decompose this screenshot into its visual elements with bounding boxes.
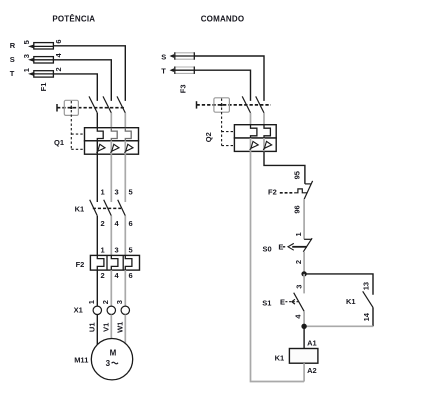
- wire pole2 F2 to X1: [110, 270, 112, 306]
- Q1 magnetic triangle pole1: [97, 144, 106, 153]
- svg-text:R: R: [10, 41, 16, 50]
- svg-text:S: S: [161, 52, 166, 61]
- svg-text:1: 1: [294, 232, 303, 236]
- svg-text:F2: F2: [268, 187, 277, 196]
- wire pole3 blade to Q1 box: [124, 113, 126, 128]
- Q2 thermal element right: [264, 125, 270, 138]
- supply arrow S comando: [170, 55, 173, 58]
- X1 terminal circle 2: [107, 306, 115, 314]
- wire node1 to S1: [303, 274, 305, 294]
- svg-text:S0: S0: [263, 244, 272, 253]
- svg-text:1: 1: [87, 300, 96, 304]
- F2 trip hook: [294, 189, 307, 193]
- Q1 mech cross dot: [70, 106, 73, 109]
- supply arrow S: [29, 58, 34, 61]
- wire R to pole3: [53, 46, 125, 101]
- wire X1-3 to motor: [124, 315, 126, 344]
- supply arrow R: [29, 45, 34, 48]
- svg-text:3: 3: [115, 246, 119, 255]
- svg-text:F2: F2: [76, 260, 85, 269]
- wire node2 to coil: [303, 326, 305, 348]
- F2 thermal element pole2: [111, 255, 118, 270]
- overload contact F2 seat: [305, 183, 311, 185]
- wire node1 to K1 branch: [304, 274, 373, 295]
- svg-text:95: 95: [293, 171, 302, 179]
- X1 terminal circle 3: [121, 306, 129, 314]
- wire T to pole1: [53, 74, 97, 101]
- svg-text:2: 2: [101, 300, 110, 304]
- wire K1 aux down: [372, 307, 374, 326]
- wire coil to bottom: [303, 363, 305, 381]
- supply arrow T: [29, 72, 34, 75]
- Q1 blade pole1: [89, 96, 97, 113]
- breaker Q2 magnetic box: [234, 138, 276, 151]
- F2 thermal element pole1: [97, 255, 104, 270]
- junction node 1: [301, 271, 306, 276]
- Q2 wire through magnetic left: [250, 138, 252, 151]
- svg-text:3: 3: [106, 359, 111, 368]
- svg-text:Q2: Q2: [204, 132, 213, 142]
- wire pole2 K1 to F2: [110, 216, 112, 256]
- svg-text:6: 6: [129, 219, 133, 228]
- X1 terminal circle 1: [93, 306, 101, 314]
- wire pole1 F2 to X1: [96, 270, 98, 306]
- wire K1 aux return: [304, 325, 373, 327]
- Q2 dashed drop link: [222, 99, 235, 146]
- svg-text:3: 3: [294, 285, 303, 289]
- svg-text:6: 6: [54, 39, 63, 43]
- svg-text:2: 2: [294, 260, 303, 264]
- overload contact F2 blade: [304, 181, 312, 199]
- svg-text:6: 6: [129, 271, 133, 280]
- wire S0 to node: [303, 252, 305, 274]
- Q2 blade pole right: [256, 96, 264, 113]
- svg-text:W1: W1: [116, 322, 125, 333]
- svg-text:U1: U1: [88, 323, 97, 333]
- Q2 blade pole left: [242, 96, 250, 113]
- Q1 thermal element pole2: [111, 128, 117, 141]
- Q1 blade pole3: [117, 96, 125, 113]
- svg-text:V1: V1: [102, 323, 111, 332]
- svg-text:Q1: Q1: [54, 138, 64, 147]
- overload F2 box: [90, 255, 139, 270]
- Q1 dashed drop link: [71, 101, 84, 149]
- svg-text:5: 5: [22, 40, 31, 44]
- wire Q2 right pole to F2 contact: [264, 151, 305, 184]
- svg-text:M: M: [110, 349, 117, 358]
- Q1 mech dashed link: [57, 107, 125, 109]
- return wire left pole down and bottom: [251, 151, 305, 381]
- svg-text:M11: M11: [74, 355, 88, 364]
- contactor K1 blade pole3: [118, 200, 126, 216]
- fuse F3 pole T: [171, 67, 194, 74]
- wire T comando to left pole: [194, 70, 250, 101]
- svg-text:14: 14: [362, 312, 371, 321]
- wire pole1 K1 to F2: [96, 216, 98, 256]
- svg-text:3: 3: [115, 188, 119, 197]
- svg-text:K1: K1: [275, 353, 285, 362]
- svg-text:5: 5: [129, 246, 133, 255]
- svg-text:2: 2: [101, 219, 105, 228]
- svg-text:E: E: [280, 298, 285, 307]
- coil K1: [289, 349, 318, 364]
- svg-text:F3: F3: [178, 84, 187, 93]
- contactor K1 blade pole2: [104, 200, 112, 216]
- stop button S0 blade: [303, 238, 312, 252]
- wire pole2 blade to Q1 box: [110, 113, 112, 128]
- Q2 magnetic triangle left: [250, 141, 259, 150]
- junction node 2: [301, 324, 306, 329]
- wire pole2 Q1 to K1: [110, 154, 112, 202]
- svg-text:K1: K1: [346, 297, 356, 306]
- svg-text:S: S: [10, 55, 15, 64]
- start button S1 blade: [294, 293, 304, 312]
- svg-text:POTÊNCIA: POTÊNCIA: [52, 14, 95, 23]
- fuse F3 pole S: [171, 52, 194, 59]
- svg-text:1: 1: [101, 188, 105, 197]
- breaker Q2 thermal box: [234, 125, 276, 138]
- aux contact K1 blade: [363, 291, 373, 307]
- supply arrow T comando: [170, 69, 173, 72]
- Q2 wire through magnetic right: [263, 138, 265, 151]
- wire X1-2 to motor: [110, 315, 112, 339]
- svg-text:96: 96: [293, 205, 302, 213]
- wire pole3 F2 to X1: [124, 270, 126, 306]
- wire S1 to node2: [303, 311, 305, 326]
- wire left blade to Q2 box: [250, 113, 252, 125]
- Q1 mech square: [64, 100, 78, 115]
- Q1 blade pole2: [103, 96, 111, 113]
- svg-text:13: 13: [362, 282, 371, 290]
- Q1 magnetic triangle pole3: [125, 144, 134, 153]
- Q1 wire through magnetic pole3: [124, 141, 126, 154]
- svg-text:3: 3: [115, 300, 124, 304]
- svg-text:K1: K1: [75, 205, 85, 214]
- F2 divider 2: [122, 255, 124, 270]
- wire pole1 blade to Q1 box: [96, 113, 98, 128]
- svg-text:2: 2: [54, 67, 63, 71]
- wire pole1 Q1 to K1: [96, 154, 98, 202]
- svg-text:5: 5: [129, 188, 133, 197]
- F2 divider 1: [106, 255, 108, 270]
- svg-text:A1: A1: [307, 339, 317, 348]
- svg-text:T: T: [10, 69, 15, 78]
- stop button S0 seat: [304, 238, 312, 240]
- Q1 thermal element pole1: [97, 128, 103, 141]
- Q1 thermal element pole3: [125, 128, 131, 141]
- svg-text:T: T: [161, 66, 166, 75]
- svg-text:COMANDO: COMANDO: [201, 14, 245, 23]
- K1 mech dashed link: [93, 207, 121, 209]
- svg-text:2: 2: [101, 271, 105, 280]
- Q2 magnetic triangle right: [263, 141, 272, 150]
- wire pole3 Q1 to K1: [124, 154, 126, 202]
- wire F2 to S0: [303, 199, 305, 239]
- Q1 wire through magnetic pole1: [96, 141, 98, 154]
- Q2 mech dashed link: [197, 104, 272, 106]
- svg-text:A2: A2: [307, 366, 317, 375]
- F2 trip dashed link: [280, 192, 295, 194]
- fuse F1 pole R: [34, 43, 54, 49]
- wire X1-1 to motor: [96, 315, 98, 345]
- S1 actuator link: [285, 299, 298, 304]
- motor M11 circle: [91, 339, 132, 380]
- Q2 mech cross dot: [220, 104, 223, 107]
- fuse F1 pole T: [34, 71, 54, 77]
- Q1 mech tick: [56, 104, 58, 112]
- svg-text:1: 1: [101, 246, 105, 255]
- Q2 thermal element left: [251, 125, 257, 138]
- svg-text:X1: X1: [74, 306, 83, 315]
- Q1 wire through magnetic pole2: [110, 141, 112, 154]
- Q2 mech tick: [196, 101, 198, 108]
- svg-text:S1: S1: [262, 298, 271, 307]
- wire S comando to right pole: [194, 56, 264, 101]
- Q2 mech square: [214, 98, 230, 112]
- svg-text:1: 1: [22, 68, 31, 72]
- fuse F1 pole S: [34, 57, 54, 63]
- F2 thermal element pole3: [125, 255, 132, 270]
- wire pole3 K1 to F2: [124, 216, 126, 256]
- svg-text:3: 3: [22, 54, 31, 58]
- svg-text:E: E: [278, 243, 283, 252]
- breaker Q1 thermal box: [85, 128, 139, 141]
- breaker Q1 magnetic box: [85, 141, 139, 154]
- contactor K1 blade pole1: [90, 200, 98, 216]
- wire right blade to Q2 box: [263, 113, 265, 125]
- S0 actuator link: [283, 243, 307, 250]
- svg-text:F1: F1: [39, 83, 48, 92]
- Q1 magnetic triangle pole2: [111, 144, 120, 153]
- wire S to pole2: [53, 60, 111, 101]
